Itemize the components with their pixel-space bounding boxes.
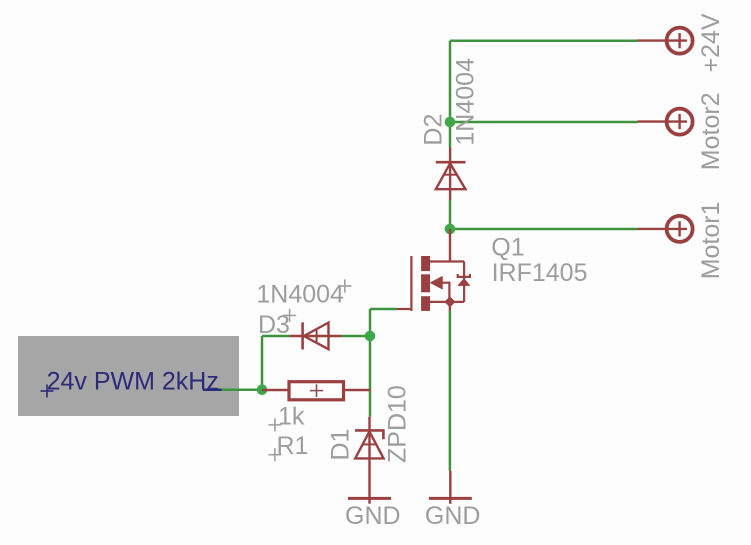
ground symbol GND right pin bbox=[449, 471, 451, 504]
resistor R1 body bbox=[289, 382, 344, 400]
diode D2 name label bbox=[420, 114, 448, 146]
wire node B up to gate row bbox=[369, 309, 372, 336]
pad Motor2 ring bbox=[667, 109, 693, 135]
wire D2 anode to node D bbox=[449, 200, 452, 229]
diode D2 origin cross tick bbox=[444, 174, 456, 176]
zener D1 pin line vertical bbox=[368, 417, 370, 504]
diode D2 triangle bbox=[436, 163, 466, 189]
wire node C to Motor2 pad bbox=[450, 121, 638, 124]
mosfet Q1 gate pin bbox=[397, 308, 412, 310]
zener D1 name label bbox=[327, 429, 355, 461]
wire Q1 source down to GND bbox=[449, 311, 452, 471]
wire D3 cathode to node B bbox=[342, 335, 370, 338]
mosfet Q1 channel segment middle bbox=[421, 274, 430, 292]
wire node B down to D1 bbox=[369, 336, 372, 417]
origin cross of net label bbox=[41, 385, 54, 398]
svg-text:1N4004: 1N4004 bbox=[256, 281, 344, 309]
mosfet Q1 value IRF1405 bbox=[492, 259, 588, 287]
wire node D to Motor1 pad bbox=[450, 228, 638, 231]
mosfet Q1 bulk arrow bbox=[431, 277, 443, 289]
wire node A up to D3 row bbox=[261, 336, 264, 390]
pad Motor1 label bbox=[697, 201, 725, 279]
pad +24V stub and cross bbox=[638, 33, 688, 48]
mosfet Q1 source junction diamond bbox=[444, 296, 455, 307]
junction node A bbox=[257, 384, 268, 395]
mosfet Q1 source pin bbox=[449, 302, 451, 311]
wire +24V top horizontal bbox=[450, 39, 638, 42]
ground symbol GND left bbox=[348, 497, 391, 500]
resistor R1 origin cross bbox=[310, 384, 323, 397]
svg-text:1N4004: 1N4004 bbox=[452, 58, 480, 146]
resistor R1 value 1k bbox=[278, 402, 305, 430]
mosfet Q1 source link bbox=[430, 301, 464, 303]
mosfet Q1 gate plate bbox=[410, 256, 412, 311]
svg-text:ZPD10: ZPD10 bbox=[384, 385, 412, 463]
ground GND right label bbox=[425, 502, 481, 530]
svg-text:1k: 1k bbox=[278, 402, 305, 430]
diode D3 value 1N4004 bbox=[256, 281, 344, 309]
wire box output to node A bbox=[222, 388, 263, 391]
pad +24V label bbox=[697, 13, 725, 72]
zener D1 origin cross tick bbox=[363, 443, 376, 445]
svg-text:R1: R1 bbox=[277, 432, 309, 460]
zener D1 triangle bbox=[355, 432, 383, 459]
resistor R1 pin 2 bbox=[345, 389, 370, 391]
mosfet Q1 drain link bbox=[430, 260, 464, 262]
svg-text:24v PWM 2kHz: 24v PWM 2kHz bbox=[47, 368, 219, 396]
pad +24V ring bbox=[667, 28, 693, 54]
diode D2 pin line bbox=[449, 148, 451, 201]
resistor R1 pin 1 bbox=[262, 389, 288, 391]
junction node C bbox=[445, 117, 456, 128]
wire PWM underline segment (navy) bbox=[203, 388, 222, 391]
diode D2 value 1N4004 bbox=[452, 58, 480, 146]
svg-text:Q1: Q1 bbox=[491, 234, 524, 262]
svg-text:GND: GND bbox=[425, 502, 481, 530]
junction node D bbox=[445, 224, 456, 235]
origin cross of 1N4004 label bbox=[338, 279, 351, 292]
mosfet Q1 bulk link bbox=[442, 283, 449, 302]
svg-text:Motor1: Motor1 bbox=[697, 201, 725, 279]
diode D3 name label bbox=[258, 311, 290, 339]
wire D3 anode left segment bbox=[262, 335, 290, 338]
svg-text:Motor2: Motor2 bbox=[697, 92, 725, 170]
wire node C to D2 cathode bbox=[449, 122, 452, 148]
pad Motor2 stub and cross bbox=[638, 114, 688, 129]
svg-text:D2: D2 bbox=[420, 114, 448, 146]
svg-text:GND: GND bbox=[345, 502, 401, 530]
diode D3 origin cross tick bbox=[316, 330, 318, 342]
ground symbol GND right bar bbox=[429, 497, 472, 500]
diode D3 cathode bar bbox=[301, 322, 304, 349]
mosfet Q1 name label bbox=[491, 234, 524, 262]
svg-text:IRF1405: IRF1405 bbox=[492, 259, 588, 287]
input annotation box bbox=[18, 336, 239, 416]
origin cross of 1k label bbox=[268, 418, 281, 431]
wire +24V corner down to node C bbox=[449, 41, 452, 122]
diode D3 pin line bbox=[290, 335, 342, 337]
svg-text:+24V: +24V bbox=[697, 13, 725, 72]
mosfet Q1 body diode triangle bbox=[457, 278, 470, 286]
ground GND left label bbox=[345, 502, 401, 530]
mosfet Q1 body diode line bbox=[463, 262, 465, 302]
origin cross of R1 label bbox=[268, 448, 281, 461]
mosfet Q1 channel segment bottom bbox=[421, 296, 430, 311]
zener D1 value ZPD10 bbox=[384, 385, 412, 463]
mosfet Q1 body diode cathode bar bbox=[458, 274, 470, 277]
mosfet Q1 drain pin bbox=[449, 229, 451, 262]
junction node B bbox=[365, 331, 376, 342]
mosfet Q1 channel segment top bbox=[421, 256, 430, 271]
pad Motor1 ring bbox=[667, 216, 693, 242]
resistor R1 name label bbox=[277, 432, 309, 460]
wire gate row horizontal bbox=[370, 308, 397, 311]
origin cross of D3 label bbox=[283, 309, 296, 322]
net label 24v PWM 2kHz bbox=[47, 368, 219, 396]
pad Motor1 stub and cross bbox=[638, 221, 688, 236]
pad Motor2 label bbox=[697, 92, 725, 170]
zener D1 cathode bar with hook bbox=[355, 430, 383, 439]
diode D2 cathode bar bbox=[436, 161, 466, 164]
svg-text:D1: D1 bbox=[327, 429, 355, 461]
diode D3 triangle bbox=[304, 323, 329, 350]
